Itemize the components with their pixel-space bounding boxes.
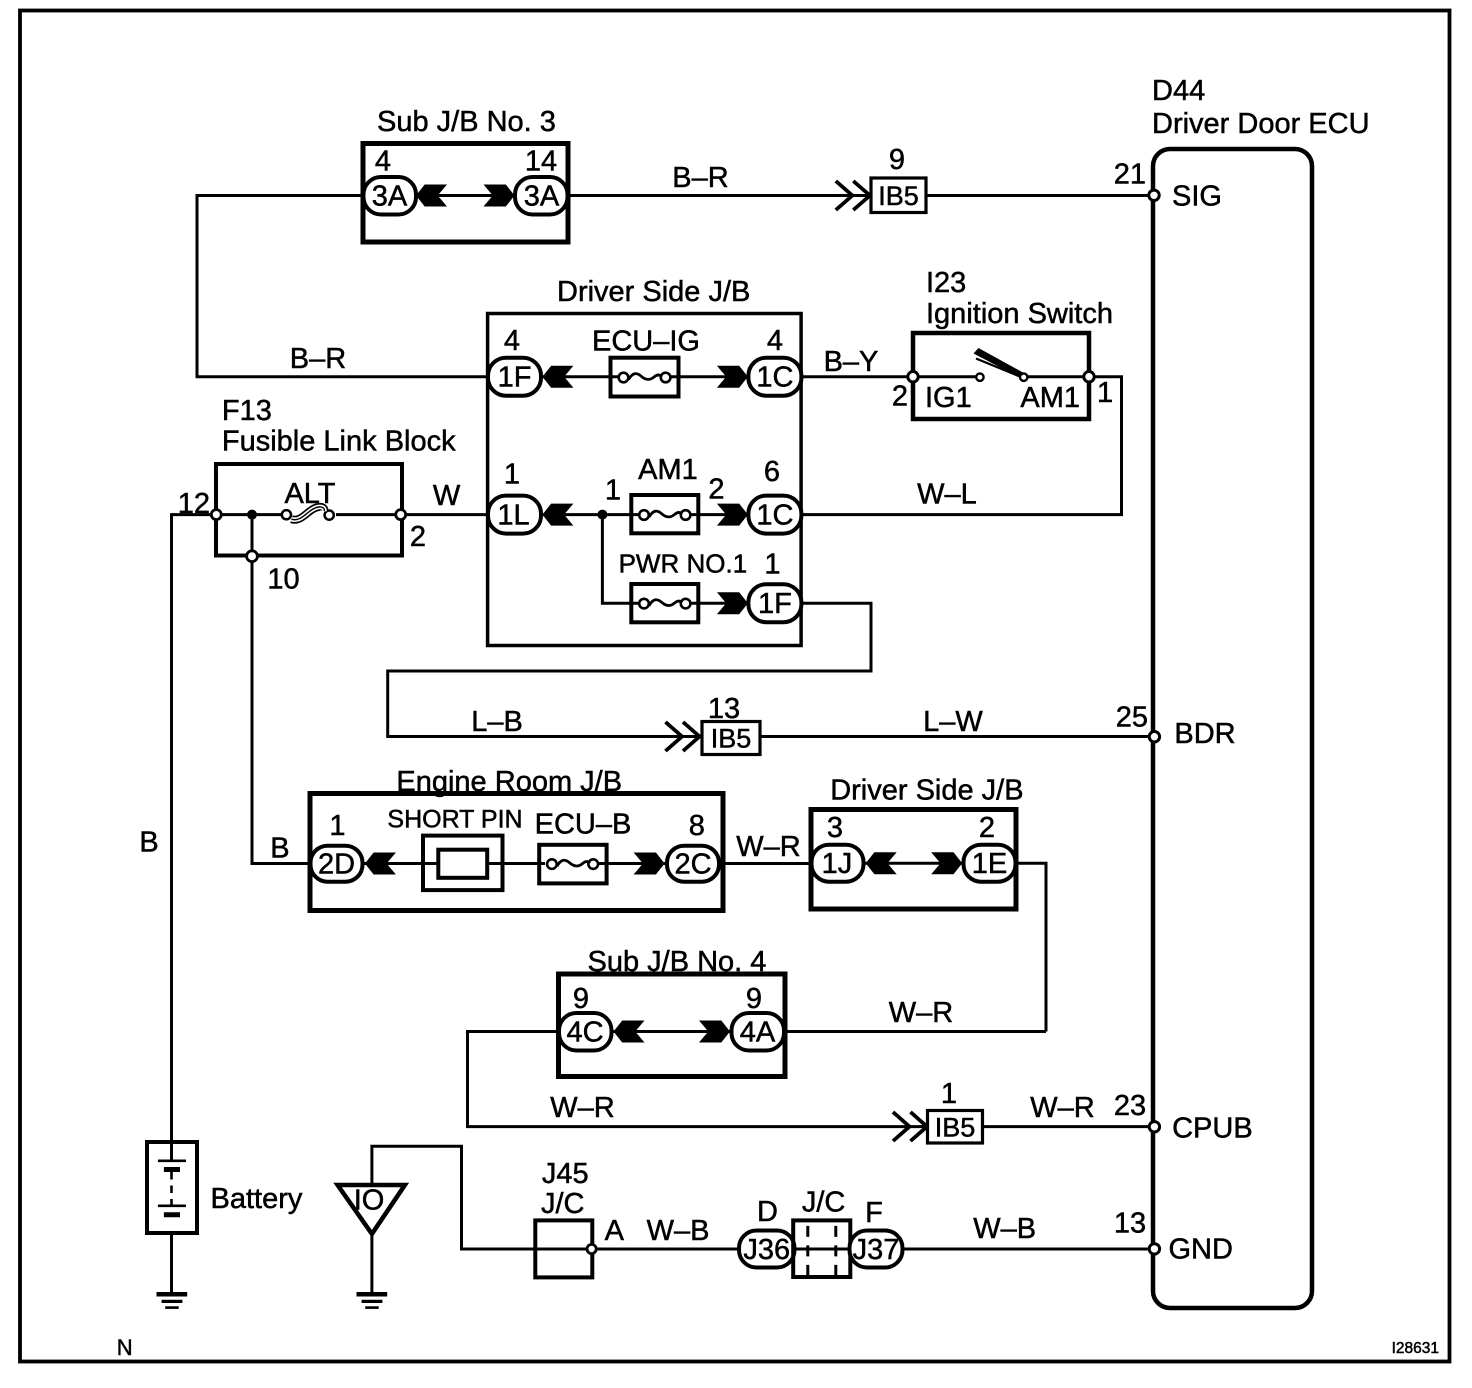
arrow right (Sub J/B No.4) [699,1021,730,1043]
svg-text:9: 9 [746,983,762,1015]
pin A [587,1244,596,1253]
svg-text:Driver Side J/B: Driver Side J/B [830,774,1023,806]
svg-text:1: 1 [504,459,520,491]
svg-text:4A: 4A [740,1017,776,1049]
svg-text:Driver Door ECU: Driver Door ECU [1152,108,1370,140]
svg-text:1E: 1E [972,848,1007,880]
switch lever [974,348,1024,378]
svg-text:1F: 1F [498,362,532,394]
svg-text:PWR NO.1: PWR NO.1 [619,548,748,578]
svg-text:2: 2 [892,381,908,413]
junction block Driver Side J/B (second) [811,774,1024,909]
svg-text:1: 1 [764,549,780,581]
junction connector IB5 pin 1 [893,1078,983,1143]
svg-text:B: B [139,826,158,858]
svg-text:12: 12 [178,488,210,520]
svg-text:3: 3 [827,812,843,844]
wire: Sub J/B No.4 4C-4A row [559,1030,786,1033]
ECU pin 25 BDR [1116,702,1236,750]
svg-text:10: 10 [267,564,299,596]
fusible link block F13 [178,395,456,595]
svg-text:14: 14 [525,145,557,177]
svg-text:25: 25 [1116,702,1148,734]
svg-text:W–R: W–R [736,831,800,863]
svg-text:Driver Side J/B: Driver Side J/B [557,276,750,308]
junction connector IB5 pin 13 [666,693,761,755]
svg-text:F13: F13 [222,395,272,427]
pin 1 (AM1) [1084,372,1094,382]
connector 1E pin 2 [964,812,1016,882]
wire: F13 ALT row [216,513,400,516]
wire: F13 junction to pin 10 [251,515,254,552]
junction connector J45 J/C [535,1158,624,1278]
svg-text:A: A [605,1215,625,1247]
junction block Sub J/B No.4 [559,946,786,1077]
wire L-B: 1F(PWR) to IB5(13) and L-W to ECU pin 25 [388,603,1155,736]
connector 1C pin 4 [748,325,801,396]
wire W-R: 4C to IB5(1) to ECU pin 23 CPUB [468,1032,1155,1127]
pin 2 (IG1) [908,372,918,382]
svg-text:1F: 1F [758,588,792,620]
svg-text:IB5: IB5 [711,724,752,754]
wire W-R: 1E to Sub J/B No.4 4A [785,863,1046,1031]
arrow left (1J row) [866,852,897,874]
wire W: F13 pin2 to 1L, AM1 fuse row [400,513,801,516]
arrow right (PWR row) [717,592,748,614]
svg-text:9: 9 [889,144,905,176]
pin 2 [396,510,406,520]
wire: Engine Room J/B 2D-2C row [310,862,723,865]
svg-text:23: 23 [1114,1090,1146,1122]
wire: between 3A connectors [416,194,515,197]
svg-text:9: 9 [573,983,589,1015]
svg-text:1J: 1J [822,848,853,880]
wire B: F13 pin12 to battery [172,515,213,1145]
svg-text:1: 1 [605,475,621,507]
svg-text:4C: 4C [566,1017,603,1049]
wire: PWR NO.1 fuse row from junction [602,515,801,604]
svg-text:4: 4 [504,325,520,357]
svg-text:J37: J37 [853,1234,900,1266]
connector 3A pin 14 [515,145,568,214]
wire W-B: J45 pin A through J36/J37 to ECU pin 13 GND [597,1248,1154,1251]
svg-text:Fusible Link Block: Fusible Link Block [222,426,456,458]
svg-text:13: 13 [708,693,740,725]
fuse ECU-IG [592,326,700,397]
wire B-Y: 1C(4) to ignition switch IG1 [801,375,1089,378]
svg-text:13: 13 [1114,1208,1146,1240]
svg-text:W–L: W–L [917,479,977,511]
connector 2D pin 1 [311,810,363,882]
connector J37 pin F [850,1197,903,1268]
svg-text:I28631: I28631 [1392,1340,1439,1357]
wire B-R: 3A(14) to IB5 to ECU pin 21 [568,194,1154,197]
svg-text:GND: GND [1169,1234,1233,1266]
svg-text:21: 21 [1114,158,1146,190]
connector 1L pin 1 [488,459,541,534]
svg-text:W: W [433,480,461,512]
svg-text:AM1: AM1 [638,454,698,486]
svg-text:D: D [757,1196,778,1228]
ground (IO) [357,1294,388,1307]
svg-text:1L: 1L [497,500,529,532]
svg-text:IB5: IB5 [878,181,919,211]
svg-text:1C: 1C [756,362,793,394]
svg-text:1C: 1C [756,500,793,532]
svg-text:Ignition Switch: Ignition Switch [926,298,1113,330]
wire: battery negative to ground [170,1217,173,1292]
svg-text:L–B: L–B [471,706,523,738]
arrow right (Engine Room row) [634,853,665,875]
wire: IO triangle to ground [370,1234,373,1292]
svg-text:3A: 3A [524,181,560,213]
fuse ECU-B [535,809,632,884]
junction node [247,510,257,520]
svg-text:L–W: L–W [923,706,983,738]
svg-text:SIG: SIG [1172,181,1222,213]
switch contacts [976,374,983,381]
svg-text:Battery: Battery [211,1183,303,1215]
svg-text:W–B: W–B [973,1213,1036,1245]
connector J36 pin D [739,1196,795,1268]
svg-text:3A: 3A [372,181,408,213]
svg-text:2D: 2D [318,849,355,881]
wire B-R: Sub J/B No.3 3A(4) to Driver Side J/B 1F [197,196,488,377]
svg-text:W–R: W–R [550,1092,614,1124]
junction block Engine Room J/B [310,766,723,911]
ECU pin 13 GND [1114,1208,1233,1266]
junction connector IB5 pin 9 [836,144,926,213]
arrow left (Sub J/B No.3) [416,185,447,207]
connector 1J pin 3 [812,812,864,882]
battery [147,1142,303,1233]
svg-text:AM1: AM1 [1020,382,1080,414]
svg-text:W–R: W–R [889,997,953,1029]
pin 12 [211,510,221,520]
svg-text:W–R: W–R [1030,1092,1094,1124]
svg-text:2: 2 [708,474,724,506]
svg-text:BDR: BDR [1174,718,1235,750]
svg-text:IG1: IG1 [925,382,972,414]
connector 1F pin 1 (PWR row) [748,584,801,622]
svg-text:B–R: B–R [290,343,346,375]
junction block Driver Side J/B (main) [488,276,801,646]
svg-text:Engine Room J/B: Engine Room J/B [396,766,622,798]
svg-text:B: B [270,832,289,864]
svg-text:B–Y: B–Y [824,346,879,378]
wire: ECU-IG fuse row inside Driver Side J/B [488,375,801,378]
fusible link ALT [282,510,291,519]
svg-text:1: 1 [329,810,345,842]
svg-text:1: 1 [941,1078,957,1110]
svg-text:4: 4 [767,325,783,357]
arrow right (AM1 row) [717,504,748,526]
svg-text:ECU–IG: ECU–IG [592,326,700,358]
fuse PWR NO.1 [619,548,781,622]
svg-text:Sub J/B No. 4: Sub J/B No. 4 [588,946,767,978]
ground (battery) [157,1294,188,1307]
svg-text:W–B: W–B [647,1215,710,1247]
connector 1C pin 6 [748,456,801,533]
svg-text:IB5: IB5 [935,1113,976,1143]
D44 Driver Door ECU [1152,75,1370,1308]
switch I23 Ignition Switch [892,267,1113,419]
connector 2C pin 8 [667,810,719,882]
wire: ground point IO to J45 J/C [372,1146,535,1249]
svg-text:6: 6 [764,456,780,488]
svg-text:J/C: J/C [541,1188,585,1220]
svg-text:CPUB: CPUB [1172,1113,1253,1145]
svg-text:J45: J45 [542,1158,589,1190]
connector 3A pin 4 [364,145,417,214]
svg-text:SHORT PIN: SHORT PIN [387,805,522,833]
connector 1F pin 4 [488,325,541,396]
arrow right (1J row) [931,852,962,874]
svg-text:D44: D44 [1152,75,1205,107]
wire W-L: ignition switch AM1 pin1 to 1C(6) [801,377,1122,515]
svg-text:I23: I23 [926,267,966,299]
svg-text:F: F [865,1197,883,1229]
arrow left (AM1 row) [542,504,573,526]
ground point IO [338,1185,405,1234]
svg-text:J/C: J/C [802,1186,846,1218]
connector 4C pin 9 [559,983,612,1051]
svg-text:ALT: ALT [284,478,335,510]
svg-text:2: 2 [979,812,995,844]
arrow right (ECU-IG row) [717,366,748,388]
svg-text:N: N [117,1335,133,1360]
svg-text:ECU–B: ECU–B [535,809,632,841]
junction block Sub J/B No.3 [363,106,568,242]
svg-text:4: 4 [375,145,391,177]
svg-text:Sub J/B No. 3: Sub J/B No. 3 [377,106,556,138]
arrow left (Sub J/B No.4) [614,1021,645,1043]
svg-text:J36: J36 [743,1234,790,1266]
svg-text:2C: 2C [674,849,711,881]
ECU pin 23 CPUB [1114,1090,1253,1144]
wire B: F13 pin10 to Engine Room J/B 2D [252,560,310,864]
ECU pin 21 SIG [1114,158,1222,212]
junction node (AM1/PWR) [597,510,607,520]
svg-text:8: 8 [689,810,705,842]
arrow left (ECU-IG row) [542,366,573,388]
arrow left (Engine Room row) [365,853,396,875]
arrow right (Sub J/B No.3) [484,185,515,207]
wire: Driver Side J/B 1J-1E row [811,862,1016,865]
junction connector J/C (dashed) [793,1186,850,1277]
svg-text:IO: IO [354,1185,385,1217]
fuse AM1 [631,454,698,533]
wire W-R: 2C to 1J [723,862,811,865]
svg-text:B–R: B–R [672,162,728,194]
svg-text:1: 1 [1097,377,1113,409]
pin 10 [247,551,258,562]
short pin (Engine Room J/B) [387,805,522,890]
connector 4A pin 9 [732,983,785,1051]
svg-text:2: 2 [410,521,426,553]
